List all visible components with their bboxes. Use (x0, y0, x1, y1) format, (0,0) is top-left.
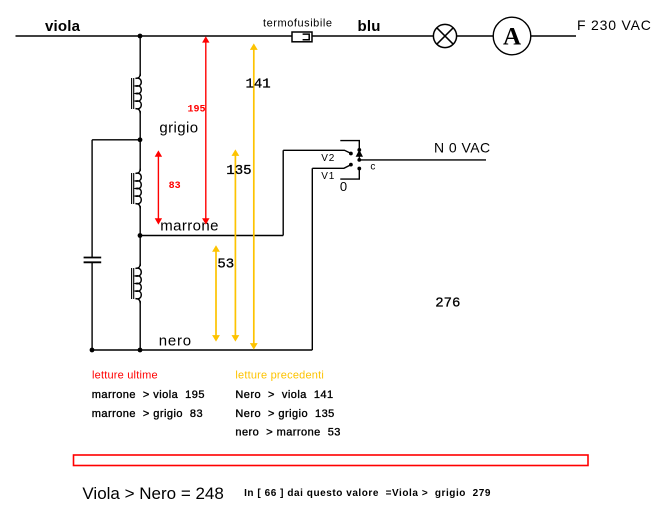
svg-text:letture ultime: letture ultime (92, 370, 158, 382)
measure arrow yellow 141 (253, 49, 255, 344)
wire: trunk top to winding 1 (139, 36, 141, 76)
svg-text:83: 83 (169, 181, 181, 192)
red highlight rectangle (74, 455, 589, 466)
ammeter U1 circle (493, 17, 531, 55)
wire: trunk marrone node to winding 3 (139, 236, 141, 267)
svg-text:Viola > Nero = 248: Viola > Nero = 248 (82, 484, 223, 503)
svg-text:viola: viola (45, 18, 81, 35)
transformer winding W2 coil (136, 169, 142, 209)
transformer winding W3 coil (136, 264, 142, 304)
wire: left branch vertical lower (capacitor to nero wire) (91, 262, 93, 350)
wire: left branch vertical upper (to capacitor) (91, 140, 93, 258)
thermal fuse F1 inner bracket (303, 34, 310, 40)
svg-text:blu: blu (358, 18, 381, 35)
measure arrow yellow 135 (234, 155, 236, 336)
wire: nero bottom line (92, 349, 312, 351)
switch SW1 common dot (357, 158, 361, 162)
svg-text:Nero > viola 141: Nero > viola 141 (235, 389, 333, 401)
measure arrow yellow 53 (215, 251, 217, 336)
svg-text:letture precedenti: letture precedenti (235, 370, 324, 382)
transformer winding W1 coil (136, 74, 142, 114)
measure arrow red 83 (157, 156, 159, 219)
wire: V2 branch vertical (282, 150, 284, 235)
node: marrone junction dot (138, 233, 143, 238)
wire: top line F from left end to fuse (16, 35, 293, 37)
transformer winding W1 core bars (132, 78, 134, 109)
svg-text:A: A (503, 24, 521, 51)
capacitor C1 plates (84, 258, 102, 263)
wire: V1 contact arm (312, 165, 351, 169)
wire: trunk winding2 to marrone node (139, 206, 141, 236)
svg-text:grigio: grigio (159, 119, 198, 136)
switch SW1 top bar (340, 141, 359, 149)
node: top junction dot (138, 34, 143, 39)
transformer winding W3 core bars (132, 268, 134, 299)
measure arrow red 195 (205, 42, 207, 219)
svg-text:termofusibile: termofusibile (263, 17, 333, 29)
node: V2 contact dot (349, 152, 353, 156)
switch SW1 upper contact dot (357, 148, 361, 152)
node: V1 contact dot (349, 163, 353, 167)
lamp L1 circle (433, 24, 456, 47)
svg-text:0: 0 (340, 179, 347, 194)
lamp L1 cross (437, 28, 453, 44)
svg-text:V2: V2 (321, 153, 335, 164)
wire: ammeter to right end (531, 35, 576, 37)
wire: fuse to lamp (312, 35, 433, 37)
svg-text:In [ 66 ] dai questo valore =: In [ 66 ] dai questo valore =Viola > gri… (244, 488, 491, 499)
wire: V1 branch vertical (311, 168, 313, 350)
svg-text:53: 53 (217, 257, 234, 273)
switch SW1 zero contact wire (340, 169, 359, 180)
svg-text:marrone: marrone (160, 218, 219, 235)
svg-text:c: c (370, 161, 375, 172)
switch SW1 lever arrow (357, 151, 362, 160)
svg-text:V1: V1 (321, 171, 335, 182)
thermal fuse F1 termofusibile body (292, 32, 312, 42)
svg-text:F 230 VAC: F 230 VAC (577, 17, 652, 33)
svg-text:N 0 VAC: N 0 VAC (434, 140, 491, 156)
wire: common to N (359, 159, 486, 161)
wire: V2 contact arm (283, 150, 351, 153)
transformer winding W2 core bars (132, 173, 134, 204)
wire: marrone node right to V2 branch (140, 235, 283, 237)
svg-text:marrone > grigio 83: marrone > grigio 83 (92, 408, 203, 420)
wire: lamp to ammeter (457, 35, 494, 37)
svg-text:141: 141 (246, 77, 271, 93)
node: nero junction dot (138, 348, 143, 353)
switch SW1 zero contact dot (357, 167, 361, 171)
node: left branch bottom dot (90, 348, 95, 353)
node: grigio junction dot (138, 137, 143, 142)
svg-text:nero > marrone 53: nero > marrone 53 (235, 427, 340, 439)
svg-text:195: 195 (188, 105, 206, 116)
svg-text:135: 135 (226, 163, 251, 179)
wire: trunk grigio node to winding 2 (139, 140, 141, 171)
svg-text:Nero > grigio 135: Nero > grigio 135 (235, 408, 334, 420)
svg-text:nero: nero (159, 332, 192, 349)
svg-text:marrone > viola 195: marrone > viola 195 (92, 389, 205, 401)
wire: trunk winding1 to grigio node (139, 111, 141, 140)
wire: grigio node left to capacitor branch (92, 139, 140, 141)
svg-text:276: 276 (435, 296, 460, 312)
wire: trunk winding3 to nero node (139, 301, 141, 350)
